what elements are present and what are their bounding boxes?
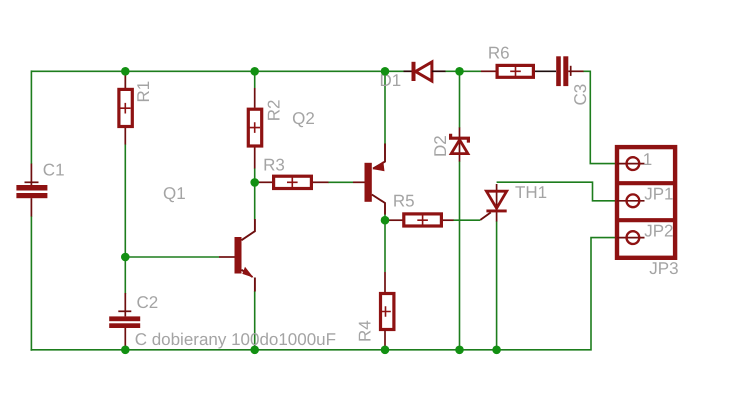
svg-text:JP1: JP1 xyxy=(644,185,673,204)
svg-text:C dobierany 100do1000uF: C dobierany 100do1000uF xyxy=(135,330,336,349)
resistor R5 xyxy=(387,214,454,226)
wire R1 top stub xyxy=(124,71,126,88)
pin 1 of JP3 xyxy=(617,157,645,170)
wire R3 to Q2 base xyxy=(328,181,353,183)
resistor R2 xyxy=(248,88,261,169)
wire Q1 emitter down xyxy=(254,291,256,350)
zener diode D2 xyxy=(451,128,469,162)
svg-text:Q2: Q2 xyxy=(292,109,315,128)
junction node top R1 xyxy=(121,67,130,76)
svg-text:JP2: JP2 xyxy=(644,222,673,241)
wire node A to C2 xyxy=(124,257,126,294)
wire top rail xyxy=(31,70,385,72)
svg-text:R2: R2 xyxy=(264,100,283,122)
wire D2 top xyxy=(459,71,461,128)
wire D1 right to node xyxy=(445,70,460,72)
wire TH1 cathode down xyxy=(496,221,498,350)
wire D2 bottom xyxy=(459,161,461,350)
junction node top D1 xyxy=(381,67,390,76)
transistor Q2 xyxy=(353,144,385,215)
wire R6 to C3 xyxy=(535,70,556,72)
pin JP1 of JP3 xyxy=(617,194,645,207)
junction node A Q1 base xyxy=(121,253,130,262)
wire left rail lower xyxy=(30,216,32,351)
resistor R3 xyxy=(257,176,329,188)
svg-text:C3: C3 xyxy=(571,84,590,106)
wire top node to Q2 emitter xyxy=(384,71,386,144)
svg-text:R3: R3 xyxy=(263,155,285,174)
resistor R4 xyxy=(380,272,394,350)
wire node B to Q1 collector xyxy=(254,182,256,219)
resistor R6 xyxy=(481,65,533,77)
pin JP2 of JP3 xyxy=(617,231,645,244)
wire R1 bottom to node A xyxy=(124,144,126,257)
svg-text:TH1: TH1 xyxy=(515,183,547,202)
wire left rail upper xyxy=(30,70,32,164)
wire R5 to TH1 gate xyxy=(453,219,480,221)
svg-text:C1: C1 xyxy=(43,160,65,179)
svg-text:R5: R5 xyxy=(393,192,415,211)
wire Q1 base xyxy=(125,256,219,258)
connector JP3 xyxy=(615,147,677,258)
svg-text:1: 1 xyxy=(643,150,652,169)
junction node bottom Q1 xyxy=(250,346,259,355)
wire node to R6 xyxy=(460,70,482,72)
junction node bottom C2 xyxy=(121,346,130,355)
wire D1 left xyxy=(385,70,404,72)
svg-text:R6: R6 xyxy=(488,43,510,62)
wire node C to R4 xyxy=(384,220,386,272)
junction node C R5 xyxy=(381,216,390,225)
wire R2 top stub xyxy=(254,71,256,88)
wire C3 to JP3 pin 1 xyxy=(583,71,618,163)
svg-text:D2: D2 xyxy=(431,135,450,157)
junction node B R3 xyxy=(250,178,259,187)
wire bottom rail to JP3 pin JP2 xyxy=(31,238,618,350)
resistor R1 xyxy=(119,75,132,145)
junction node bottom D2 xyxy=(455,346,464,355)
junction node bottom TH1 xyxy=(492,346,501,355)
diode D1 xyxy=(404,62,446,81)
capacitor C1 xyxy=(16,164,47,217)
junction node top D2 xyxy=(455,67,464,76)
svg-text:Q1: Q1 xyxy=(163,184,186,203)
wire TH1 anode to JP3 pin JP1 xyxy=(497,182,618,201)
junction node bottom R4 xyxy=(381,346,390,355)
transistor Q1 xyxy=(219,219,255,292)
wire R2 bottom to node B xyxy=(254,168,256,182)
thyristor TH1 xyxy=(480,191,506,221)
svg-text:JP3: JP3 xyxy=(649,259,678,278)
wire Q2 collector to node C xyxy=(384,214,386,220)
capacitor C2 xyxy=(109,293,140,350)
svg-text:C2: C2 xyxy=(137,293,159,312)
capacitor C3 xyxy=(556,56,583,86)
wire TH1 top stub xyxy=(496,184,498,212)
junction node top R2 xyxy=(250,67,259,76)
svg-text:R4: R4 xyxy=(356,320,375,342)
svg-text:R1: R1 xyxy=(134,81,153,103)
